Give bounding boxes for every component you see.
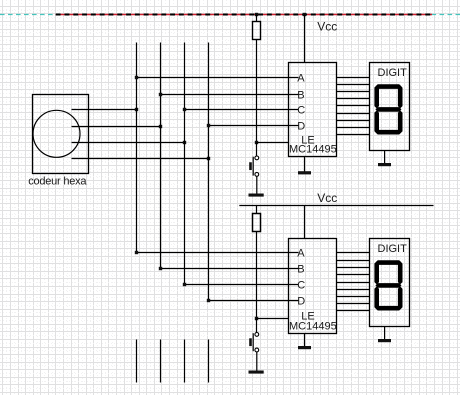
svg-text:C: C: [297, 105, 305, 117]
wire R2 top lead: [256, 206, 258, 214]
display DIGIT2 body: [370, 239, 410, 327]
bus wire 3 vertical: [184, 43, 186, 285]
wire codeur out1: [72, 109, 137, 111]
stub wire 3 bottom: [184, 340, 186, 383]
svg-text:A: A: [297, 248, 305, 260]
svg-text:DIGIT: DIGIT: [378, 67, 408, 79]
DIGIT1 seven segment glyph: [375, 84, 401, 89]
IC U1 MC14495 body: [289, 63, 337, 157]
junction LE1 node: [255, 141, 258, 144]
junction R1 top: [255, 13, 258, 16]
wire U2 pin A: [137, 252, 299, 254]
wire S1 to ground: [256, 177, 258, 195]
resistor R1: [253, 22, 261, 40]
junction bus1/A2: [135, 251, 138, 254]
svg-text:D: D: [297, 296, 305, 308]
svg-text:DIGIT: DIGIT: [378, 243, 408, 255]
wire R1 bottom to LE node: [256, 40, 258, 143]
wire Vcc net 2: [239, 205, 433, 207]
wire codeur out2: [72, 126, 161, 128]
wire U2 pin D: [209, 300, 299, 302]
bus wire 1 vertical: [136, 43, 138, 253]
junction out3 / bus3: [183, 141, 186, 144]
svg-text:Vcc: Vcc: [317, 19, 337, 33]
wire codeur out3: [72, 142, 185, 144]
wire LE1 node to switch S1: [256, 143, 258, 156]
wires U2 outputs to DIGIT2: [337, 253, 370, 311]
wire LE2 to U2: [257, 318, 289, 320]
junction LE2 node: [255, 317, 258, 320]
svg-text:codeur hexa: codeur hexa: [28, 176, 87, 188]
codeur hexa block: [33, 95, 89, 174]
push switch S1: [255, 156, 259, 160]
junction bus4/D1: [207, 124, 210, 127]
stub wire 1 bottom: [136, 340, 138, 383]
svg-text:A: A: [297, 73, 305, 85]
wire U1 pin D: [209, 125, 299, 127]
stub wire 2 bottom: [160, 340, 162, 383]
junction bus1/A1: [135, 76, 138, 79]
DIGIT2 seven segment glyph: [375, 260, 401, 265]
wire U1 pin B: [161, 94, 299, 96]
DIGIT2 ground: [384, 327, 386, 341]
push switch S2: [255, 333, 259, 337]
wire codeur out4: [72, 158, 209, 160]
stub wire 4 bottom: [208, 340, 210, 383]
junction out1 / bus1: [135, 108, 138, 111]
DIGIT1 ground: [384, 151, 386, 165]
svg-text:MC14495: MC14495: [289, 143, 337, 155]
wire Vcc2 to U2 top: [304, 206, 306, 239]
U2 ground wire: [304, 334, 306, 348]
junction bus2/B2: [159, 267, 162, 270]
wire U2 pin B: [161, 268, 299, 270]
junction bus2/B1: [159, 93, 162, 96]
bus wire 4 vertical: [208, 43, 210, 301]
wire Vcc to U1 top: [304, 15, 306, 63]
wire U1 pin C: [185, 109, 299, 111]
svg-text:MC14495: MC14495: [289, 320, 337, 332]
svg-text:Vcc: Vcc: [317, 191, 337, 205]
wire LE2 node to switch S2: [256, 319, 258, 333]
wire LE1 to U1: [257, 142, 289, 144]
svg-text:B: B: [297, 90, 304, 102]
ground below S2: [249, 371, 264, 374]
junction bus3/C2: [183, 283, 186, 286]
junction out4 / bus4: [207, 157, 210, 160]
svg-text:C: C: [297, 280, 305, 292]
page boundary dashed line right: [432, 14, 460, 16]
display DIGIT1 body: [370, 63, 410, 151]
wire S2 to ground: [256, 352, 258, 371]
svg-text:D: D: [297, 121, 305, 133]
junction Vcc branch to U1: [303, 13, 306, 16]
ground below S1: [249, 194, 264, 197]
codeur hexa circle: [33, 110, 80, 157]
wire R1 top lead: [256, 15, 258, 22]
wire U2 pin C: [185, 284, 299, 286]
svg-text:B: B: [297, 264, 304, 276]
bus wire 2 vertical: [160, 43, 162, 269]
wires U1 outputs to DIGIT1: [337, 78, 370, 135]
page boundary dashed line left: [0, 14, 56, 16]
junction bus3/C1: [183, 108, 186, 111]
junction out2 / bus2: [159, 125, 162, 128]
wire Vcc net 1 (selected, red): [56, 14, 432, 16]
junction bus4/D2: [207, 299, 210, 302]
U1 ground wire: [304, 157, 306, 173]
resistor R2: [253, 214, 261, 232]
IC U2 MC14495 body: [289, 239, 337, 334]
wire U1 pin A: [137, 77, 299, 79]
wire R2 bottom to LE2 node: [256, 232, 258, 319]
